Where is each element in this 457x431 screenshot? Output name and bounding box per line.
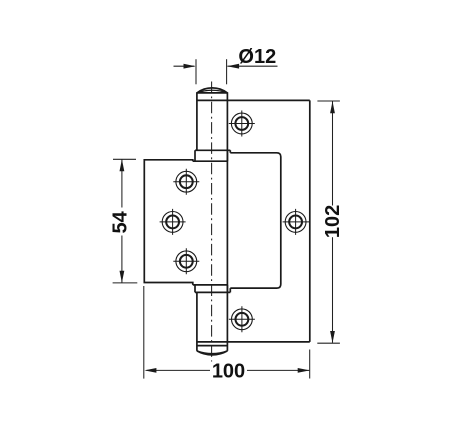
svg-text:102: 102 (322, 205, 344, 238)
svg-text:Ø12: Ø12 (238, 46, 276, 68)
svg-text:54: 54 (110, 210, 132, 233)
svg-text:100: 100 (212, 360, 245, 382)
